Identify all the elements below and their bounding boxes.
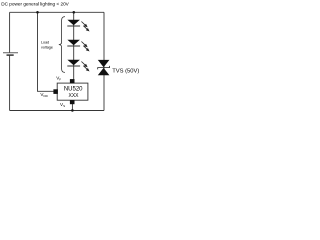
svg-text:TVS (50V): TVS (50V) — [112, 68, 139, 74]
svg-text:NU520: NU520 — [64, 86, 83, 92]
svg-text:XXX: XXX — [68, 93, 79, 99]
svg-text:VDD: VDD — [40, 92, 48, 98]
svg-text:Load: Load — [41, 41, 49, 45]
svg-text:VF: VF — [56, 75, 61, 81]
svg-text:VS: VS — [60, 102, 65, 108]
svg-text:DC power general lighting < 20: DC power general lighting < 20V — [1, 2, 69, 7]
svg-text:voltage: voltage — [41, 46, 53, 50]
